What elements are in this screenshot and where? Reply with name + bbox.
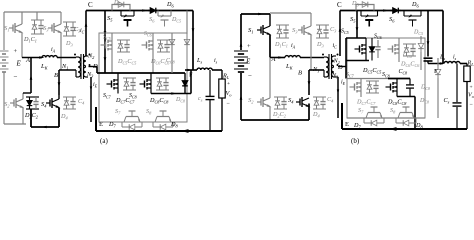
node A wire down (a) [30,58,32,94]
wire A-LK (b) [270,57,285,59]
transistor S4 (b) [296,101,300,103]
diode on inner branch (a) [171,36,173,39]
wire F feed (a) [185,69,193,71]
snubber DC6 CC6 (b) [403,43,416,45]
svg-text:DC5: DC5 [413,30,423,37]
svg-text:iA: iA [51,47,56,54]
svg-text:DC8: DC8 [419,98,429,105]
svg-text:+: + [227,81,230,87]
wire B down (b) [308,70,310,95]
wire clamp left black (b) [345,38,347,79]
diode D2 + cap C2 (a) [26,96,39,98]
mosfet SC5 (b) [362,44,366,46]
svg-text:E: E [16,60,22,68]
mosfet SC5 (a) [108,40,112,42]
wire A-LK (a) [22,57,42,59]
svg-text:−: − [248,72,252,80]
wire F riser (a) [192,11,194,71]
svg-text:F: F [189,72,193,79]
mosfet S5 (b) [360,11,362,17]
wire SC8 out (b) [397,96,415,98]
battery E (a) [0,50,9,52]
resistor RL (b) [466,64,468,67]
diode D7 (b) [363,118,365,123]
wire S4 emitter (b) [308,104,310,121]
wire black bottom loop rail (a) [31,126,59,128]
svg-text:SC7: SC7 [346,72,355,79]
wire clamp to F (a) [151,93,191,95]
wire: (a) outer gray left side [3,12,5,50]
snubber DC6 CC6 (a) [157,39,170,41]
diode DC5 right (a) [186,11,188,35]
wire iC riser (a) [85,11,87,57]
mosfet SC7 (a) [114,79,118,81]
wire iE (b) [336,76,338,78]
diode DC8 gray (b) [437,58,439,66]
transistor S3 (b) [298,29,302,31]
svg-text:CC8: CC8 [399,69,408,76]
switch S8 (a) [157,116,169,118]
svg-text:SC6: SC6 [144,31,152,38]
svg-text:(b): (b) [351,137,360,145]
svg-text:is: is [214,58,218,65]
diode D8 (a) [152,122,154,127]
resistor RL (a) [221,70,223,79]
wire top rail sec (b) [340,10,443,12]
transistor S1 (b) [257,29,261,31]
svg-text:(a): (a) [100,137,108,145]
wire battery riser (b) [240,14,242,50]
wire CC7 drop (b) [427,11,429,57]
snubber D2 C2 (b) [274,96,287,98]
polarity dots (a) [74,54,76,56]
svg-text:+: + [14,48,18,55]
wire clamp row gray (b) [346,78,388,80]
svg-text:E: E [245,58,251,66]
svg-text:−: − [14,73,18,81]
transformer secondary N2 (b) [332,56,335,66]
diode D8 (b) [395,118,397,123]
transformer primary N1 (b) [326,57,329,77]
svg-text:C: C [88,1,93,9]
transistor S1 (a) [9,27,13,29]
capacitor Cs (a) [209,70,211,96]
transformer secondary N2 (a) [84,56,87,66]
arrow on rail (a) [142,9,147,12]
svg-text:SC5: SC5 [103,35,111,42]
wire bottom border (a) [96,130,222,132]
wire iC riser (b) [339,11,341,57]
switch S7 (b) [368,112,380,114]
svg-text:D5: D5 [113,0,121,7]
snubber DC8 CC8 (a) [156,77,169,79]
snubber D4 C4 (a) [63,96,76,98]
diode DC5 (b) [371,38,373,47]
wire bottom border (b) [342,128,467,130]
mosfet SC8 (b) [393,82,397,84]
inductor LK (a) [42,56,57,58]
wire S2 jog (a) [23,92,31,94]
svg-text:E: E [345,121,349,128]
wire S2 emitter black (a) [30,109,32,127]
transistor S2 (a) [10,102,14,104]
capacitor CC7 (b) [424,57,433,59]
wire top rail (b) [241,13,270,15]
wire clamp inner branch (a) [171,33,173,73]
svg-text:+: + [247,43,251,50]
wire gray bottom rail (b) [347,117,425,119]
clamp box (b) [347,38,425,118]
svg-text:B: B [54,72,58,79]
diode D6 (a) [148,10,150,12]
wire bottom rail (b) [241,119,309,121]
wire B (b) [309,69,324,71]
wire B (a) [59,69,76,71]
svg-text:is: is [453,55,457,62]
polarity dots (b) [322,54,324,56]
snubber DC7 CC7 (a) [123,77,136,79]
wire top rail gray (b) [270,12,311,14]
diode DC5 right (b) [420,36,422,40]
svg-text:SC8: SC8 [382,72,390,79]
transformer core (b) [328,54,330,79]
svg-text:CC6: CC6 [403,53,412,60]
switch S8 (b) [400,112,412,114]
capacitor CC8 (b) [409,79,411,85]
wire F-Ls (b) [460,63,467,65]
inductor LK (b) [285,56,300,58]
wire E bracket (b) [341,103,343,129]
svg-text:iC: iC [333,43,338,50]
transformer primary N1 (a) [78,57,81,77]
svg-text:DC8: DC8 [175,97,185,104]
svg-text:iE: iE [341,80,346,87]
transistor S2 (b) [257,101,261,103]
wire E bracket (a) [95,107,97,131]
svg-text:B: B [298,70,302,77]
wire D to clamp (a) [89,66,98,68]
wire D drop (b) [338,66,346,68]
clamp box (a) [99,33,187,122]
wire clamp top black (b) [346,37,366,39]
capacitor CC5 (b) [377,40,379,47]
inductor Ls (b) [444,62,460,64]
transistor S4 (a) [46,102,50,104]
diode clamp output (a) [184,73,186,81]
snubber D1 C1 (b) [276,24,289,26]
mosfet S6 (b) [403,11,405,17]
capacitor Cs (b) [456,64,458,103]
transistor S3 (a) [48,27,52,29]
transformer secondary N3 (b) [332,67,335,77]
wire: (a) outer gray top rail [4,11,61,13]
svg-text:iA: iA [291,43,296,50]
wire iE (a) [90,77,92,122]
svg-text:DC5: DC5 [171,17,181,24]
diode D6 (b) [390,10,393,12]
mosfet S6 (a) [157,11,159,17]
svg-text:iC: iC [80,28,85,35]
snubber DC7 CC7 (b) [366,80,379,82]
mosfet SC8 (a) [147,79,151,81]
svg-text:DC8: DC8 [420,85,430,92]
arrow rail (b) [383,9,388,12]
switch S7 (a) [126,116,138,118]
svg-text:+: + [470,85,473,91]
diode D7 (a) [121,122,123,127]
transformer core (a) [80,54,82,79]
svg-text:SC5: SC5 [341,29,349,36]
diode D5 bypass (b) [356,5,374,11]
svg-text:D: D [337,64,343,71]
wire top rail C (a) [86,10,193,12]
wire F-Ls (a) [193,69,197,71]
svg-text:E: E [99,121,103,128]
wire B down to S4 (a) [58,70,60,95]
wire clamp bus black (b) [346,60,369,62]
battery E (b) [234,50,248,52]
wire cap to F (b) [428,63,443,65]
svg-text:SC7: SC7 [103,93,112,100]
wire C drop to clamp (a) [104,11,106,74]
wire: (a) gray bottom-left rail [4,123,26,125]
transformer secondary N3 (a) [84,67,87,77]
mosfet SC6 (b) [395,44,399,46]
wire C drop (b) [356,11,358,39]
svg-text:CC8: CC8 [166,58,175,65]
wire S4 emitter (a) [58,108,60,128]
snubber D1 C1 (a) [31,19,44,21]
mosfet SC6 (a) [149,40,153,42]
wire clamp row black (b) [388,78,410,80]
mosfet SC7 (b) [357,82,361,84]
snubber D3 C3 (a) [63,21,76,23]
snubber D3 C3 (b) [316,24,329,26]
wire F riser (b) [442,11,444,64]
svg-text:SC6: SC6 [374,34,382,41]
inductor Ls (a) [197,68,212,70]
snubber D4 C4 (b) [313,96,326,98]
snubber DC5 CC5 (a) [117,39,130,41]
svg-text:F: F [434,68,438,75]
diode D5 bypass (a) [112,5,130,11]
svg-text:C: C [337,1,342,9]
svg-text:iE: iE [93,82,98,89]
mosfet S5 (a) [120,11,122,17]
